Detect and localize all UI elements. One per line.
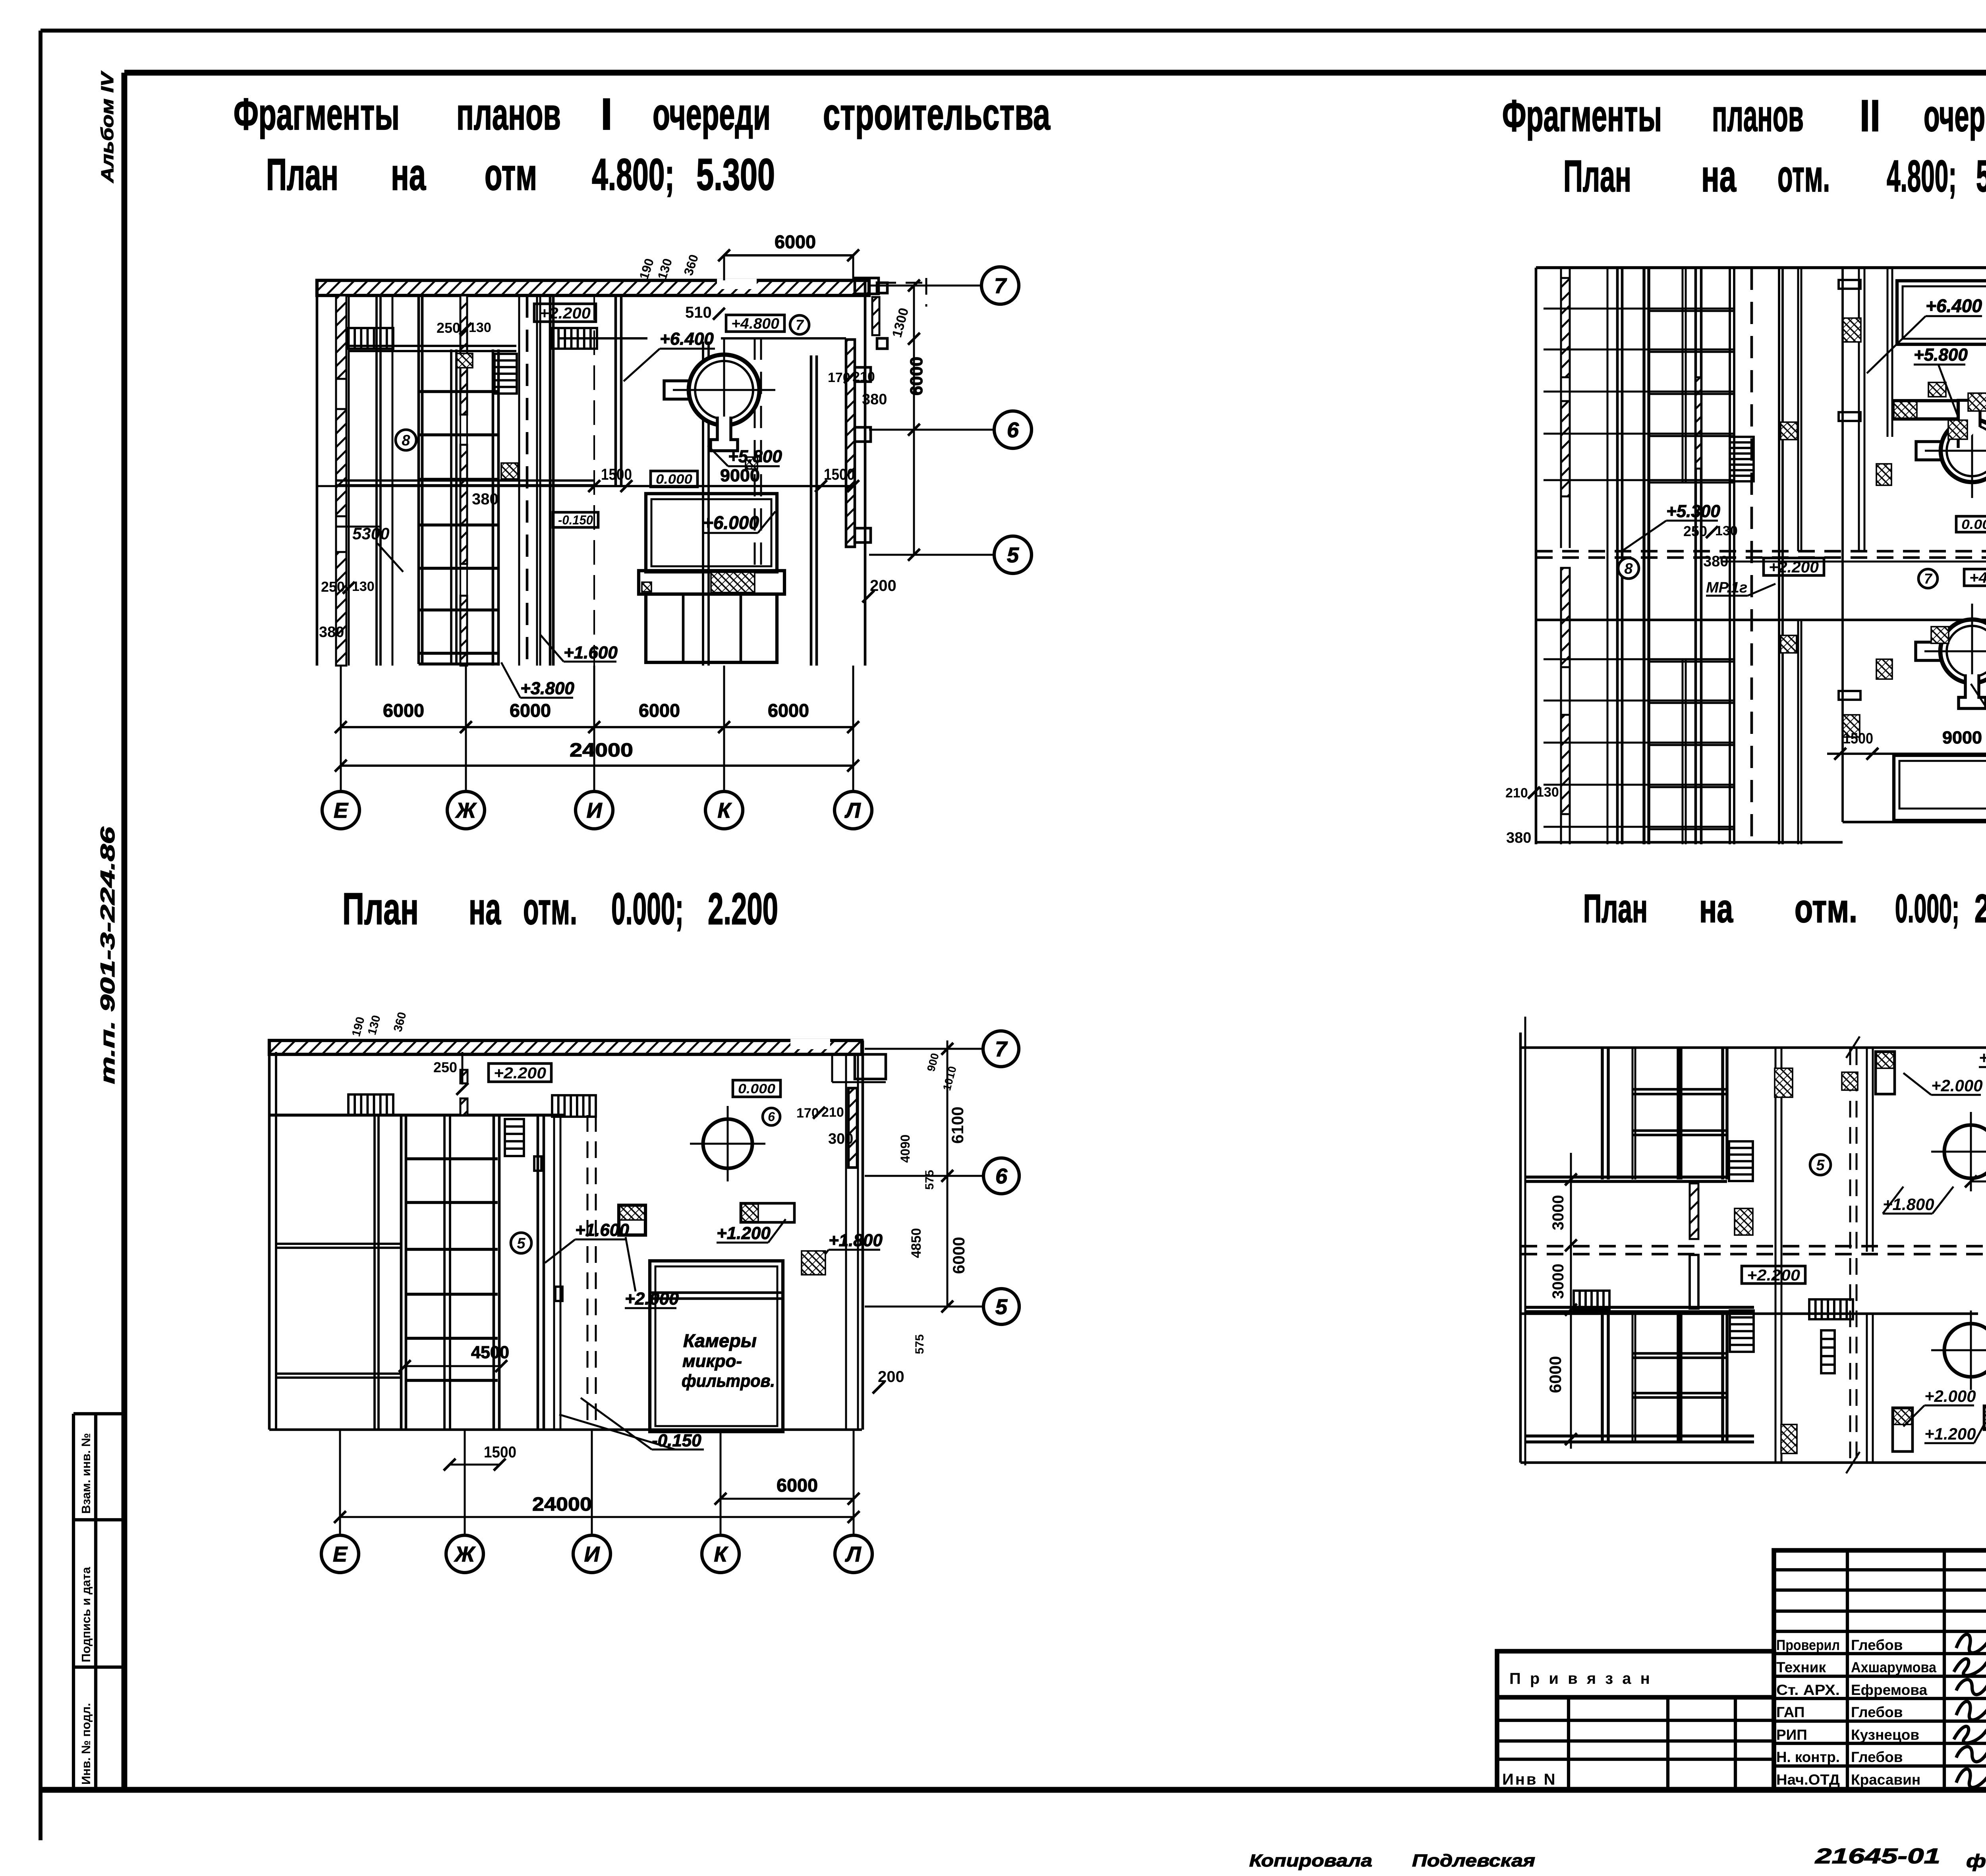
svg-text:5: 5 [1816, 1157, 1825, 1173]
svg-text:И: И [584, 1542, 600, 1566]
svg-text:планов: планов [1712, 91, 1804, 141]
svg-text:Е: Е [334, 799, 349, 822]
svg-text:0.000: 0.000 [1961, 517, 1986, 532]
svg-text:24000: 24000 [570, 740, 633, 761]
svg-text:+1.600: +1.600 [564, 643, 618, 662]
svg-text:П р и в я з а н: П р и в я з а н [1509, 1670, 1652, 1687]
svg-text:5: 5 [995, 1295, 1008, 1319]
svg-text:Ж: Ж [455, 799, 477, 822]
svg-text:4500: 4500 [471, 1343, 509, 1362]
svg-text:7: 7 [796, 317, 804, 333]
svg-text:Кузнецов: Кузнецов [1851, 1727, 1919, 1743]
svg-text:План: План [266, 150, 338, 199]
svg-text:250: 250 [1683, 523, 1707, 539]
svg-text:Л: Л [844, 799, 861, 822]
svg-text:+1.200: +1.200 [1924, 1424, 1976, 1443]
svg-text:Подлевская: Подлевская [1412, 1851, 1535, 1870]
svg-text:отм.: отм. [1795, 886, 1857, 931]
svg-text:2.200: 2.200 [1974, 886, 1986, 931]
svg-text:3000: 3000 [1549, 1195, 1567, 1230]
svg-text:План: План [1563, 151, 1631, 201]
svg-text:ГАП: ГАП [1776, 1704, 1804, 1720]
svg-text:Взам. инв. №: Взам. инв. № [79, 1433, 93, 1514]
svg-text:+4.800: +4.800 [731, 316, 779, 332]
svg-text:Инв N: Инв N [1502, 1771, 1557, 1788]
svg-text:24000: 24000 [532, 1494, 592, 1515]
svg-text:План: План [342, 884, 419, 934]
svg-text:380: 380 [472, 490, 498, 508]
svg-text:5.300: 5.300 [696, 150, 775, 199]
svg-text:Ахшарумова: Ахшарумова [1851, 1659, 1936, 1675]
svg-text:Нач.ОТД: Нач.ОТД [1776, 1772, 1840, 1788]
svg-text:6100: 6100 [948, 1107, 967, 1144]
svg-text:6: 6 [995, 1164, 1008, 1188]
svg-text:2.200: 2.200 [708, 884, 778, 934]
svg-text:Камеры: Камеры [683, 1330, 757, 1351]
svg-text:+2.000: +2.000 [1924, 1387, 1976, 1405]
svg-text:I: I [601, 89, 612, 139]
svg-text:7: 7 [995, 1037, 1008, 1061]
svg-text:+1.800: +1.800 [829, 1231, 883, 1250]
svg-text:т.п. 901-3-224.86: т.п. 901-3-224.86 [97, 826, 119, 1084]
svg-text:7: 7 [1924, 571, 1933, 587]
svg-text:Глебов: Глебов [1851, 1637, 1903, 1653]
svg-text:0.000: 0.000 [738, 1081, 775, 1096]
svg-text:РИП: РИП [1776, 1727, 1807, 1743]
svg-text:4900: 4900 [1984, 1349, 1986, 1386]
svg-text:21645-01: 21645-01 [1815, 1844, 1940, 1868]
svg-text:К: К [714, 1542, 728, 1566]
svg-text:Альбом IV: Альбом IV [98, 71, 117, 183]
svg-text:6000: 6000 [949, 1237, 968, 1274]
svg-text:на: на [391, 150, 426, 199]
svg-text:К: К [717, 799, 732, 822]
svg-text:на: на [1701, 151, 1736, 201]
svg-text:575: 575 [923, 1170, 936, 1190]
svg-text:7: 7 [994, 274, 1007, 298]
svg-text:380: 380 [1506, 830, 1531, 846]
svg-text:+2.000: +2.000 [1931, 1076, 1983, 1095]
svg-text:очереди: очереди [1924, 91, 1986, 141]
svg-text:-0.150: -0.150 [558, 513, 593, 527]
svg-text:Е: Е [333, 1542, 348, 1566]
svg-text:очереди: очереди [653, 89, 771, 139]
svg-text:0.000;: 0.000; [611, 884, 684, 934]
svg-text:9000: 9000 [720, 466, 760, 485]
svg-text:Н. контр.: Н. контр. [1776, 1749, 1840, 1765]
svg-text:210: 210 [1505, 786, 1528, 801]
svg-text:+6.400: +6.400 [1926, 295, 1982, 316]
svg-text:130: 130 [1715, 523, 1738, 538]
svg-text:+2.200: +2.200 [494, 1064, 546, 1082]
svg-text:планов: планов [456, 89, 561, 139]
svg-text:Ж: Ж [454, 1542, 476, 1566]
svg-text:формат А2: формат А2 [1966, 1851, 1986, 1871]
svg-text:+2.200: +2.200 [539, 305, 591, 322]
svg-text:Л: Л [844, 1542, 862, 1566]
svg-text:5: 5 [1007, 543, 1019, 567]
svg-text:на: на [1699, 886, 1733, 931]
svg-text:510: 510 [685, 304, 712, 321]
svg-text:6000: 6000 [768, 700, 809, 721]
svg-text:8: 8 [402, 432, 410, 449]
svg-text:6000: 6000 [777, 1475, 818, 1496]
svg-text:6: 6 [1007, 418, 1019, 442]
svg-text:4850: 4850 [909, 1228, 924, 1258]
svg-text:6000: 6000 [1546, 1356, 1565, 1393]
svg-text:210: 210 [852, 369, 875, 384]
svg-text:250: 250 [321, 579, 345, 595]
svg-text:380: 380 [319, 624, 344, 641]
svg-text:3000: 3000 [1549, 1264, 1567, 1299]
svg-text:1500: 1500 [1843, 730, 1873, 747]
svg-text:+2.200: +2.200 [1769, 558, 1819, 576]
svg-text:210: 210 [821, 1105, 844, 1120]
svg-text:II: II [1860, 91, 1880, 141]
svg-text:6000: 6000 [383, 700, 424, 721]
svg-text:4.800;: 4.800; [1887, 151, 1957, 201]
svg-text:+5.800: +5.800 [1914, 345, 1968, 365]
svg-text:170: 170 [828, 370, 850, 385]
svg-text:микро-: микро- [682, 1351, 742, 1371]
svg-text:130: 130 [352, 579, 375, 594]
svg-text:Техник: Техник [1776, 1659, 1826, 1675]
svg-text:отм: отм [485, 150, 537, 199]
svg-text:Глебов: Глебов [1851, 1704, 1903, 1720]
svg-text:Красавин: Красавин [1851, 1772, 1920, 1788]
svg-text:6000: 6000 [775, 232, 816, 252]
svg-text:380: 380 [862, 391, 887, 408]
svg-text:-0.150: -0.150 [652, 1431, 701, 1450]
svg-text:отм.: отм. [523, 884, 577, 934]
svg-text:+2.200: +2.200 [1747, 1266, 1800, 1284]
svg-text:на: на [469, 884, 501, 934]
svg-text:Инв. № подл.: Инв. № подл. [79, 1703, 93, 1785]
svg-text:1500: 1500 [484, 1444, 516, 1461]
svg-text:+6.400: +6.400 [660, 329, 714, 349]
svg-text:МР.1г: МР.1г [1706, 579, 1747, 596]
svg-text:0.000: 0.000 [656, 472, 692, 487]
svg-text:5300: 5300 [352, 524, 389, 543]
svg-text:575: 575 [913, 1334, 926, 1354]
svg-text:300: 300 [828, 1131, 853, 1147]
svg-text:6000: 6000 [907, 357, 926, 396]
svg-text:+1.200: +1.200 [717, 1224, 771, 1243]
svg-text:И: И [587, 799, 603, 822]
svg-text:8: 8 [1624, 560, 1633, 577]
svg-text:170: 170 [796, 1106, 819, 1121]
svg-text:1500: 1500 [824, 466, 855, 483]
svg-text:1500: 1500 [601, 466, 632, 483]
svg-text:4.800;: 4.800; [592, 150, 674, 199]
svg-text:9000: 9000 [1942, 728, 1982, 747]
svg-text:130: 130 [469, 320, 491, 335]
svg-text:Проверил: Проверил [1776, 1637, 1840, 1653]
svg-text:5: 5 [517, 1235, 525, 1252]
svg-text:6: 6 [768, 1110, 775, 1124]
svg-text:6000: 6000 [639, 700, 680, 721]
svg-text:Подпись и дата: Подпись и дата [79, 1567, 93, 1662]
svg-text:Ст. АРХ.: Ст. АРХ. [1776, 1682, 1840, 1698]
svg-text:250: 250 [437, 320, 460, 336]
svg-text:+5.800: +5.800 [728, 447, 782, 466]
svg-text:+4.800: +4.800 [1969, 570, 1986, 587]
svg-text:5.300: 5.300 [1976, 151, 1986, 201]
svg-text:380: 380 [1703, 553, 1728, 570]
svg-text:Копировала: Копировала [1249, 1851, 1372, 1870]
svg-text:отм.: отм. [1777, 151, 1830, 201]
svg-text:6000: 6000 [510, 700, 551, 721]
svg-text:0.000;: 0.000; [1895, 886, 1959, 931]
svg-text:130: 130 [1536, 785, 1559, 800]
svg-text:План: План [1583, 886, 1648, 931]
svg-text:Ефремова: Ефремова [1851, 1682, 1927, 1698]
svg-text:Фрагменты: Фрагменты [1502, 91, 1662, 141]
svg-text:+1.200: +1.200 [1979, 1048, 1986, 1067]
svg-text:4090: 4090 [898, 1135, 912, 1163]
svg-text:+1.600: +1.600 [575, 1220, 629, 1240]
svg-text:+3.800: +3.800 [520, 679, 574, 698]
svg-text:Фрагменты: Фрагменты [234, 89, 400, 139]
svg-text:Глебов: Глебов [1851, 1749, 1903, 1765]
svg-text:+6.000: +6.000 [703, 512, 759, 533]
svg-text:фильтров.: фильтров. [682, 1371, 775, 1391]
svg-text:250: 250 [433, 1059, 457, 1075]
svg-text:+5.300: +5.300 [1666, 502, 1720, 521]
svg-text:строительства: строительства [823, 89, 1050, 139]
